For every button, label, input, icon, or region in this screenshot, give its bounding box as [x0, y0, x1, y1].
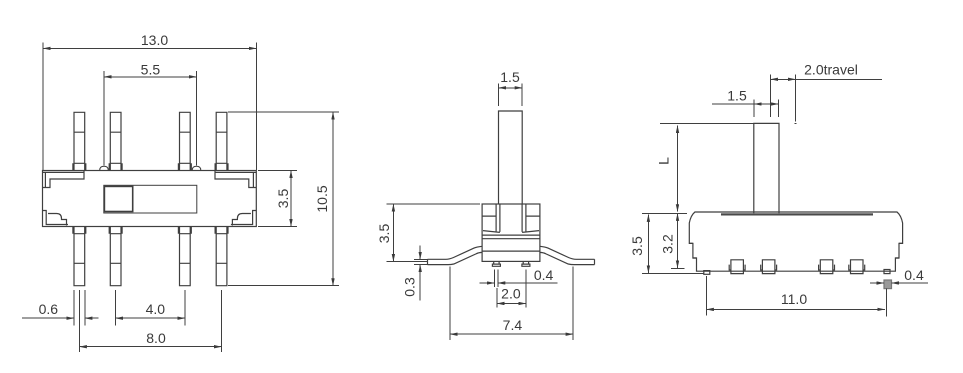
dim 0.3 extension lines: [414, 259, 428, 264]
svg-text:2.0travel: 2.0travel: [804, 62, 858, 78]
terminal T3: [819, 260, 835, 274]
stem (front): [754, 123, 779, 213]
dim 8.0 line: [79, 346, 221, 348]
dim 4.0 extension lines: [116, 290, 185, 326]
foot cross-section gray square: [884, 280, 892, 289]
dim 1.5 right extension lines: [754, 100, 778, 118]
svg-text:7.4: 7.4: [503, 317, 523, 333]
svg-text:3.5: 3.5: [376, 224, 392, 244]
svg-text:8.0: 8.0: [146, 330, 166, 346]
top pin 1: [73, 112, 86, 170]
svg-text:3.5: 3.5: [275, 189, 291, 209]
svg-text:4.0: 4.0: [146, 301, 166, 317]
svg-text:3.5: 3.5: [629, 236, 645, 256]
body (front) outline: [689, 212, 902, 271]
corner hook bottom-right: [231, 211, 256, 226]
dim 2.0 line: [497, 303, 526, 305]
dim 7.4 line: [450, 333, 573, 335]
dim 0.4 right left arrow tail: [870, 282, 884, 284]
dim 1.5 right tail: [712, 103, 754, 105]
dome boss right on top edge: [192, 166, 201, 170]
terminal T1: [729, 260, 745, 274]
dim 1.5 right line: [754, 103, 778, 105]
dim 0.6 left arrow tail: [22, 317, 74, 319]
bottom pin 4: [215, 227, 228, 286]
dim 10.5 extension lines: [228, 112, 339, 286]
bottom pin 3: [178, 227, 191, 286]
svg-text:10.5: 10.5: [314, 185, 330, 212]
dim 2.0 extension lines: [497, 270, 526, 308]
top pin 4: [215, 112, 228, 170]
svg-text:1.5: 1.5: [500, 69, 520, 85]
dim 5.5 extension lines: [104, 71, 197, 166]
slider knob: [104, 186, 132, 211]
leg right: [540, 246, 595, 264]
dim L line: [677, 126, 679, 212]
dim 1.5 middle extension lines: [499, 84, 523, 107]
dim 0.4 right arrow tail: [892, 282, 929, 284]
travel end dot: [795, 123, 797, 124]
dim 4.0 line: [116, 317, 185, 319]
dome boss left on top edge: [100, 166, 109, 170]
dim 0.6 extension lines: [74, 290, 85, 326]
dim 0.4 middle left arrow tail: [480, 282, 495, 284]
dim 7.4 extension lines: [450, 267, 573, 340]
dim 1.5 middle line: [499, 87, 523, 89]
foot left (front): [704, 271, 710, 275]
svg-text:0.6: 0.6: [39, 301, 59, 317]
foot right (front): [884, 270, 890, 274]
body (side): [482, 204, 540, 261]
dim 0.4 middle right arrow tail: [498, 282, 558, 284]
dim 0.3 lower arrow tail: [419, 265, 421, 301]
left edge steps: [689, 243, 696, 258]
dim 0.3 upper arrow tail: [419, 245, 421, 259]
svg-text:5.5: 5.5: [141, 62, 161, 78]
dim 3.2 line: [677, 213, 679, 268]
dim 11.0 line: [706, 308, 884, 310]
metal cover top line: [721, 213, 873, 215]
inner block right: [522, 204, 540, 232]
dim 5.5 line: [104, 76, 197, 78]
terminal T2: [761, 260, 777, 274]
slider window: [104, 185, 197, 213]
dim 0.4 middle extension lines: [494, 270, 497, 288]
top pin 2: [109, 112, 122, 170]
svg-text:11.0: 11.0: [781, 291, 807, 307]
bottom pin 1: [73, 227, 86, 286]
body horizontal lines: [482, 235, 540, 251]
terminal T4: [849, 260, 865, 274]
svg-text:0.4: 0.4: [534, 267, 554, 283]
stem (side): [499, 111, 523, 204]
svg-text:3.2: 3.2: [660, 234, 676, 254]
dim 13.0 extension lines: [43, 43, 256, 171]
dim 3.5 left-view line: [290, 171, 292, 227]
dim 10.5 line: [332, 112, 334, 286]
bottom pin left (side): [492, 261, 500, 266]
dim 3.5 middle extension lines: [387, 204, 481, 261]
dim 8.0 extension lines: [79, 290, 221, 352]
dim 3.5 right-view line: [647, 214, 649, 273]
dim 3.2 bottom extension: [671, 267, 685, 269]
bottom pin 2: [109, 227, 122, 286]
body outline: [43, 171, 257, 227]
inner block left: [482, 204, 500, 232]
dim 2.0travel line: [771, 78, 796, 80]
corner step top-right: [215, 171, 256, 188]
svg-text:0.4: 0.4: [904, 267, 924, 283]
top pin 3: [178, 112, 191, 170]
svg-text:L: L: [656, 157, 672, 165]
svg-text:2.0: 2.0: [501, 286, 521, 302]
right edge steps: [895, 243, 902, 258]
corner hook bottom-left: [43, 211, 69, 226]
leg left: [428, 246, 483, 264]
svg-text:13.0: 13.0: [141, 32, 168, 48]
dim 13.0 line: [43, 47, 256, 49]
dim 3.5 middle line: [392, 204, 394, 261]
dim 3.5 right-view extension lines: [642, 213, 704, 273]
dim 11.0 extension lines: [706, 276, 886, 317]
dim 0.6 right arrow tail: [85, 317, 99, 319]
bottom pin right (side): [522, 261, 530, 266]
dim 2.0travel extension lines: [771, 75, 796, 122]
dim 3.5 left-view extension lines: [258, 171, 297, 227]
dim L top extension line: [660, 123, 754, 125]
corner step top-left: [43, 171, 85, 188]
svg-text:1.5: 1.5: [727, 88, 747, 104]
svg-text:0.3: 0.3: [402, 277, 418, 297]
dim 2.0travel tail: [796, 78, 883, 80]
